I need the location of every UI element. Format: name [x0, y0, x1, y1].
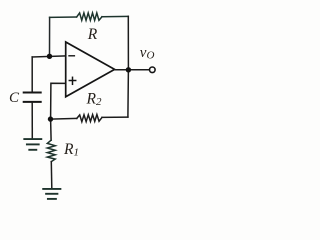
wire capacitor branch — [31, 57, 33, 92]
node inverting junction — [47, 54, 52, 59]
wire top-left segment — [50, 16, 77, 18]
resistor R — [77, 13, 102, 20]
wire inverting-input net — [32, 56, 65, 57]
capacitor C top plate — [24, 92, 41, 94]
op-amp U1 — [66, 42, 115, 97]
ground under C — [24, 139, 41, 150]
node noninverting junction — [48, 116, 53, 121]
op-amp plus sign — [69, 77, 75, 84]
wire noninverting-input net — [51, 83, 66, 119]
wire top-right segment — [102, 15, 128, 17]
terminal vo — [150, 67, 156, 73]
wire R1 to ground — [50, 162, 53, 188]
wire node to R1 — [50, 119, 53, 140]
wire output — [115, 69, 149, 71]
wire R2 net right — [102, 116, 128, 118]
ground under R1 — [43, 189, 60, 199]
wire capacitor to ground — [31, 103, 33, 139]
wire left vertical from top corner to inverting node — [49, 17, 51, 56]
op-amp minus sign — [69, 55, 74, 57]
svg-text:R1: R1 — [63, 141, 79, 159]
node output junction — [126, 67, 131, 72]
svg-text:C: C — [9, 90, 20, 106]
svg-text:vO: vO — [140, 45, 155, 62]
svg-text:R: R — [87, 26, 98, 43]
svg-text:R2: R2 — [86, 91, 102, 109]
wire right rail — [127, 16, 129, 117]
capacitor C bottom plate — [24, 101, 41, 103]
resistor R1 — [47, 140, 55, 161]
resistor R2 — [77, 115, 102, 122]
wire R2 net left — [50, 117, 76, 120]
